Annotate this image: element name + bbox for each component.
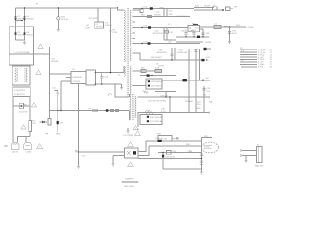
- svg-text:25V: 25V: [197, 104, 201, 106]
- svg-text:47U: 47U: [169, 14, 173, 16]
- warning triangle switch: [21, 125, 26, 129]
- wire feedback second: [149, 145, 202, 147]
- resistor R12 on rail: [115, 109, 118, 111]
- wire pin3 drop: [60, 81, 62, 111]
- capacitor C46 bars: [200, 154, 203, 155]
- diode D27: [147, 74, 150, 76]
- svg-text:1N4007: 1N4007: [26, 19, 34, 21]
- choke left winding: [15, 68, 16, 82]
- wire PG row: [115, 96, 130, 98]
- node U1 drain pin: [95, 72, 97, 74]
- fan body: [257, 147, 263, 163]
- warning triangle AC: [36, 144, 42, 149]
- wire -12V rail: [133, 27, 188, 29]
- wire fan -: [242, 155, 257, 157]
- output harness rows: [240, 48, 273, 69]
- capacitor C23 vertical: [199, 49, 201, 80]
- wire NTC to ground: [57, 20, 59, 29]
- wire T1 sec pin stubs: [133, 9, 140, 11]
- node U1 source pin: [95, 83, 97, 85]
- diode +12V out: [201, 59, 204, 61]
- svg-text:C34 1N/50V: C34 1N/50V: [176, 16, 188, 18]
- resistor R11 on rail: [110, 109, 113, 111]
- wire opto emitter riser: [138, 146, 149, 156]
- node D2 junction: [24, 19, 26, 21]
- ground source rail: [121, 84, 123, 88]
- node drain junction: [110, 72, 112, 74]
- svg-text:FR153: FR153: [204, 6, 211, 8]
- ground mid: [56, 93, 59, 95]
- wire feedback top: [146, 140, 202, 142]
- svg-text:1000U/25V: 1000U/25V: [157, 52, 168, 54]
- node snubber junction: [110, 30, 112, 32]
- svg-text:1N/1KV: 1N/1KV: [96, 26, 104, 28]
- wire AC line right: [29, 96, 31, 120]
- warning triangle opto top: [128, 142, 134, 147]
- resistor R53 marks: [200, 161, 203, 165]
- transformer T1 aux winding: [124, 66, 125, 76]
- diode D10 on rail: [106, 109, 109, 111]
- varistor RV1: [13, 105, 30, 107]
- svg-text:D28 1N4148: D28 1N4148: [151, 81, 164, 83]
- diode D30: [147, 116, 149, 118]
- svg-text:D30 1N4148: D30 1N4148: [150, 117, 163, 119]
- capacitor C36: [184, 30, 187, 37]
- svg-text:25V: 25V: [207, 91, 211, 93]
- svg-text:see note: see note: [204, 147, 213, 150]
- svg-text:FAN 12V: FAN 12V: [255, 164, 264, 167]
- switch S1: [29, 121, 32, 132]
- wire bottom link: [163, 168, 202, 170]
- svg-text:470U: 470U: [232, 33, 237, 35]
- dashed box dual diode: [146, 79, 162, 89]
- ground below NTC: [57, 30, 60, 32]
- wire mid row: [140, 75, 176, 77]
- wire PG rail right: [137, 96, 209, 98]
- transformer T1 core: [126, 8, 128, 98]
- diode D1: [14, 16, 16, 18]
- svg-text:TO220F: TO220F: [73, 81, 81, 83]
- wire T1 top stub: [118, 8, 125, 10]
- transformer T1 primary winding: [124, 10, 125, 62]
- wire top rail: [16, 7, 118, 9]
- node snubber dot: [222, 9, 224, 11]
- svg-text:GND GND: GND GND: [124, 186, 134, 188]
- capacitor C37: [192, 31, 195, 37]
- wire sense mid: [158, 152, 202, 154]
- node D4 junction: [24, 33, 26, 35]
- arrow +12V: [206, 59, 209, 60]
- wire +5V rail: [162, 79, 210, 81]
- wire opto cathode: [113, 155, 125, 157]
- transformer T2 core: [132, 94, 134, 120]
- wire rail -12V top: [133, 8, 194, 10]
- wire box drop: [137, 113, 139, 128]
- wire U1 pin2: [66, 77, 71, 79]
- transformer T2 secondary: [135, 96, 136, 118]
- svg-text:8 PG: 8 PG: [258, 67, 263, 69]
- wire top stub right: [202, 137, 213, 139]
- wire bridge right leg: [24, 8, 26, 40]
- wire start vertical: [49, 47, 51, 111]
- diode D2: [23, 16, 25, 18]
- svg-text:M: M: [257, 145, 259, 147]
- svg-text:1000U/16V: 1000U/16V: [177, 52, 188, 54]
- marks after L6: [224, 25, 228, 28]
- svg-text:FR107: FR107: [106, 25, 113, 27]
- wire connector link: [18, 137, 27, 143]
- ground fan: [245, 156, 247, 161]
- choke right winding: [26, 68, 27, 82]
- vertical x166: [165, 92, 167, 97]
- inductor L1: [9, 53, 49, 55]
- warning triangle lower left: [135, 131, 141, 136]
- svg-text:1N4148: 1N4148: [51, 61, 59, 63]
- diode D29: [148, 85, 150, 87]
- svg-text:1N4007: 1N4007: [17, 35, 25, 37]
- node rail junctions: [57, 110, 58, 111]
- node source junction: [101, 83, 102, 84]
- wire T2 primary top: [115, 84, 129, 97]
- warning triangle opto bottom: [128, 162, 134, 167]
- node D1 junction: [15, 19, 17, 21]
- svg-text:1000U/16V: 1000U/16V: [153, 33, 164, 35]
- capacitor C16 tick: [75, 151, 77, 152]
- svg-text:+5VSB: +5VSB: [247, 27, 254, 29]
- transistor Q7 blob: [193, 24, 198, 26]
- svg-text:D29 1N4148: D29 1N4148: [151, 86, 164, 88]
- wire pin row 1: [240, 49, 257, 51]
- wire +12V rail: [140, 59, 203, 61]
- wire PS-ON rail: [50, 110, 130, 112]
- svg-text:AC IN: AC IN: [12, 151, 18, 154]
- svg-text:GND: GND: [56, 133, 61, 135]
- warning triangle mid: [36, 70, 41, 75]
- wire T2 left top stub: [129, 94, 131, 97]
- TL431 node vertical: [201, 138, 203, 173]
- wire fan +: [242, 150, 257, 152]
- wire pin row 3: [240, 54, 257, 56]
- wire bank bus: [176, 36, 209, 38]
- diode D33: [162, 153, 164, 170]
- connector AC plug 1: [11, 142, 19, 149]
- diode D4: [23, 32, 25, 34]
- svg-text:1N/50V: 1N/50V: [154, 15, 162, 17]
- svg-text:3.3K: 3.3K: [155, 68, 160, 70]
- choke core dashes: [16, 68, 18, 82]
- note ellipse: [201, 142, 218, 153]
- capacitor C38b bars: [201, 33, 204, 34]
- optocoupler U3: [125, 148, 139, 158]
- wire -5V rail: [133, 43, 200, 45]
- wire pin row 6: [240, 61, 257, 63]
- diode ZD2: [40, 121, 48, 123]
- wire rail second top: [133, 16, 190, 18]
- wire bridge left leg: [15, 8, 17, 40]
- svg-text:SCK 05: SCK 05: [61, 19, 69, 21]
- svg-text:SBL2040CT: SBL2040CT: [151, 57, 163, 59]
- svg-text:150K: 150K: [85, 27, 90, 29]
- capacitor C13: [100, 73, 103, 85]
- wire U1 drain to T1: [96, 72, 125, 74]
- diode D? right: [204, 48, 207, 50]
- svg-text:+5VSB: +5VSB: [205, 42, 212, 44]
- svg-text:2.2M: 2.2M: [112, 32, 117, 34]
- svg-text:GND: GND: [196, 108, 201, 110]
- node D3 junction: [15, 33, 17, 35]
- label feedback arc: [108, 94, 112, 96]
- capacitor bank under 7805: [202, 29, 204, 37]
- ground C39: [228, 42, 231, 44]
- svg-text:this point: this point: [204, 144, 213, 147]
- resistor R51: [167, 151, 172, 155]
- svg-text:6.2V: 6.2V: [32, 123, 37, 125]
- capacitor CX box: [13, 87, 30, 96]
- EMI filter box: [9, 27, 33, 65]
- resistor R14: [48, 119, 51, 126]
- wire row y91.5: [155, 91, 176, 93]
- diode D21: [197, 36, 200, 38]
- svg-text:PG: PG: [203, 95, 206, 97]
- vertical x170: [169, 97, 171, 113]
- wire 3.3V sense rail: [138, 112, 209, 114]
- ground T2: [127, 128, 129, 131]
- wire L3 bottom: [164, 39, 176, 41]
- node sense junction: [162, 152, 164, 154]
- wire pin row 4: [240, 56, 257, 58]
- diode D23: [183, 79, 187, 81]
- node NTC top junction: [58, 7, 59, 8]
- wire AC tap arrow: [16, 20, 23, 22]
- vertical pair L-C: [163, 9, 165, 17]
- transformer T1 secondary winding lower: [130, 48, 131, 61]
- wire pin row 2: [240, 51, 257, 53]
- svg-text:C6 1500P: C6 1500P: [88, 18, 98, 20]
- svg-text:+5V: +5V: [205, 78, 209, 80]
- svg-text:JUMPER: JUMPER: [125, 178, 134, 180]
- diode D31: [147, 120, 149, 122]
- transistor Q3: [57, 121, 59, 124]
- svg-text:L1 0.1U/275VAC: L1 0.1U/275VAC: [15, 51, 31, 54]
- ground opto cathode: [112, 164, 115, 166]
- diode D28: [148, 80, 150, 82]
- common mode choke T5 box: [12, 66, 30, 85]
- wire sense drop: [57, 95, 59, 132]
- svg-text:CON2: CON2: [26, 152, 33, 154]
- node TL431 junction: [201, 158, 202, 159]
- wire T2 right stubs: [137, 96, 140, 98]
- transformer T1 secondary winding upper: [130, 10, 131, 46]
- node top rail T1 junction: [117, 7, 118, 8]
- svg-text:DM0565R: DM0565R: [73, 77, 83, 79]
- wire opto anode: [79, 151, 125, 153]
- wire opto collector: [138, 141, 146, 152]
- dashed box dual diode lower: [140, 115, 162, 125]
- node opto wire junction: [78, 151, 79, 152]
- svg-text:R37 680: R37 680: [185, 101, 194, 103]
- node 3.3V sense rail end: [208, 111, 211, 114]
- svg-text:D31 1N4148: D31 1N4148: [150, 121, 163, 123]
- wire pin row 5: [240, 58, 257, 60]
- diode D3: [14, 32, 16, 34]
- wire U1 pin1: [50, 73, 72, 75]
- wire 7805 out rail +5VSB: [199, 26, 246, 28]
- wire pin row 8: [241, 66, 257, 68]
- svg-text:0.22U/275V: 0.22U/275V: [14, 90, 26, 92]
- svg-text:C25 1H R36 OPEN: C25 1H R36 OPEN: [148, 101, 166, 103]
- connector AC plug 2: [24, 142, 32, 149]
- fan connector CN2 pins: [240, 150, 242, 152]
- wire opto feed vertical: [78, 84, 80, 167]
- thermistor NTC: [57, 17, 60, 20]
- warning triangle varistor: [31, 103, 36, 107]
- ground opto vertical: [77, 167, 80, 169]
- warning triangle T2: [133, 126, 138, 130]
- wire bridge bottom: [16, 39, 25, 41]
- ground earth below bridge: [23, 40, 26, 45]
- wire +5VSB lower rail: [176, 41, 203, 43]
- ground TL431: [200, 172, 203, 174]
- wire opto lower rail: [138, 158, 202, 160]
- resistor R25: [141, 70, 146, 73]
- svg-text:+12V: +12V: [205, 57, 211, 59]
- resistor R49: [158, 140, 162, 142]
- vertical x204: [203, 86, 205, 113]
- wire U1 source rail: [96, 83, 122, 85]
- wire U1 pin3: [61, 80, 71, 82]
- wire split to snubber: [194, 7, 214, 9]
- warning triangle upper mid: [38, 44, 43, 49]
- wire primary vertical: [110, 8, 112, 73]
- capacitor C24 bars: [170, 54, 173, 55]
- capacitor C38: [226, 7, 231, 10]
- svg-text:C19 2200P: C19 2200P: [123, 135, 134, 137]
- capacitor C39: [229, 27, 231, 42]
- wire row to box: [133, 85, 146, 87]
- wire T2 left bottom stub: [129, 111, 131, 121]
- transformer T2 standby primary: [130, 94, 131, 120]
- wire pin row 7: [240, 63, 257, 65]
- wire +5V choke row: [133, 70, 162, 72]
- svg-text:10D471K: 10D471K: [19, 112, 28, 114]
- resistor R26: [155, 70, 161, 73]
- wire AC line left: [12, 96, 14, 142]
- node bridge top junction: [24, 7, 25, 8]
- svg-text:X2 AC275V: X2 AC275V: [14, 93, 25, 96]
